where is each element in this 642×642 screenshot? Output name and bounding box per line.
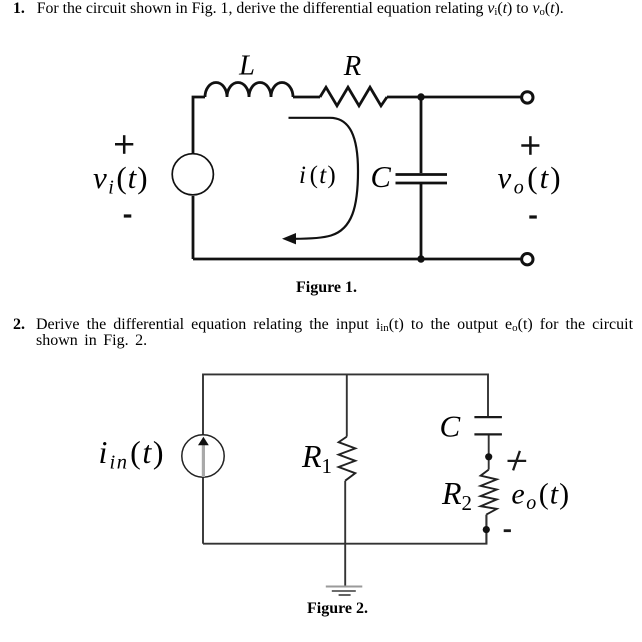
current source circle (182, 435, 224, 477)
capacitor C fig2 plates (474, 417, 502, 434)
svg-text:R2: R2 (441, 475, 472, 515)
inductor L coil (205, 83, 293, 98)
wire: fig1 vertical below source (192, 196, 195, 259)
problem 2 statement (13, 317, 633, 349)
label - (vo) minus sign (529, 215, 537, 218)
label - (vi) minus sign (124, 214, 132, 217)
wire: fig2 bottom (203, 515, 487, 544)
current loop arrow i(t) (289, 118, 359, 239)
wire: fig1 top-left vertical above source (193, 97, 205, 154)
caption Figure 2 (307, 600, 368, 618)
svg-text:C: C (371, 160, 392, 194)
node: dot between C and R2 (485, 453, 492, 460)
node: bottom junction dot (417, 255, 424, 262)
current source arrow shaft (202, 445, 205, 477)
wire: fig2 top (203, 374, 488, 434)
wire: R1 top lead (346, 374, 348, 436)
current source arrowhead (198, 437, 209, 446)
resistor R zigzag (320, 87, 387, 106)
problem 1 statement (13, 1, 633, 17)
svg-text:R: R (343, 51, 361, 82)
svg-text:eo(t): eo(t) (511, 478, 570, 515)
wire: R2 bottom lead (485, 515, 487, 544)
svg-text:C: C (440, 409, 461, 444)
node: dot below R2 (483, 526, 490, 533)
label - (eo) minus sign (504, 529, 511, 532)
wire: R1 bottom lead to ground (344, 481, 346, 587)
resistor R1 zigzag (339, 437, 356, 481)
svg-text:R1: R1 (301, 438, 332, 478)
wire: capacitor top lead (420, 97, 423, 173)
label + (vi) plus sign (115, 135, 133, 154)
wire: capacitor bottom lead (420, 184, 423, 259)
capacitor C plates (396, 175, 448, 184)
svg-text:L: L (238, 51, 255, 82)
wire: between L and R (293, 96, 320, 99)
wire: capacitor to R2 (488, 434, 490, 469)
voltage source circle (172, 154, 213, 195)
svg-text:vi(t): vi(t) (93, 160, 149, 199)
wire: below current source (202, 477, 204, 544)
svg-text:vo(t): vo(t) (498, 160, 563, 199)
label + (vo) plus sign (521, 136, 539, 155)
ground symbol (326, 586, 363, 588)
wire: fig1 bottom (193, 258, 521, 261)
caption Figure 1 (296, 279, 357, 297)
terminal: bottom-right open circle (522, 254, 533, 265)
wire: R to top-right terminal (387, 96, 521, 99)
node: top junction dot (417, 93, 424, 100)
svg-text:i(t): i(t) (299, 162, 337, 189)
terminal: top-right open circle (522, 92, 533, 103)
label + (eo) slanted plus (508, 451, 527, 471)
resistor R2 zigzag (481, 470, 497, 515)
svg-text:iin(t): iin(t) (99, 434, 166, 474)
